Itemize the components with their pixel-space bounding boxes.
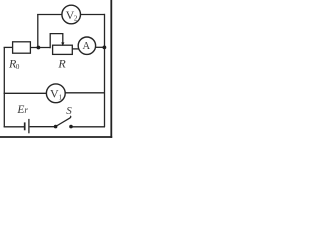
page border bottom — [0, 136, 112, 138]
wire top left to V2 — [37, 14, 62, 16]
svg-text:1: 1 — [59, 93, 63, 101]
wire R to ammeter — [72, 48, 80, 50]
svg-text:r: r — [24, 105, 28, 115]
svg-text:R: R — [57, 56, 66, 70]
wire V2 to right corner — [81, 14, 105, 16]
voltmeter V2 — [62, 5, 81, 24]
switch pivot dot — [54, 125, 58, 129]
svg-text:E: E — [16, 104, 24, 116]
battery positive plate — [28, 119, 30, 133]
svg-text:0: 0 — [16, 63, 20, 71]
wire bottom left — [4, 126, 25, 128]
rheostat slider arrowhead — [61, 42, 64, 46]
wire V1 row left — [4, 92, 47, 94]
switch lever — [56, 116, 71, 127]
node dot junction left — [37, 46, 41, 50]
wire main row left — [4, 46, 13, 48]
wire V1 to right vertical — [65, 92, 104, 94]
rheostat R box — [53, 45, 73, 54]
wire right vertical — [104, 14, 106, 127]
resistor R0 — [13, 42, 31, 53]
wire A to right node — [96, 46, 105, 48]
node dot junction right — [103, 46, 107, 50]
page border right — [110, 0, 112, 138]
svg-text:2: 2 — [74, 15, 78, 23]
wire V2 riser — [37, 15, 39, 48]
wire R0 to node — [30, 47, 50, 49]
battery negative plate — [24, 122, 26, 130]
voltmeter V1 — [46, 84, 65, 103]
rheostat slider riser — [50, 34, 63, 49]
svg-text:A: A — [83, 41, 91, 52]
svg-text:S: S — [66, 105, 72, 117]
wire left vertical — [3, 47, 5, 127]
wire battery to switch — [30, 126, 56, 128]
switch right terminal dot — [69, 125, 73, 129]
ammeter A — [78, 37, 95, 54]
wire switch to right — [71, 126, 105, 128]
